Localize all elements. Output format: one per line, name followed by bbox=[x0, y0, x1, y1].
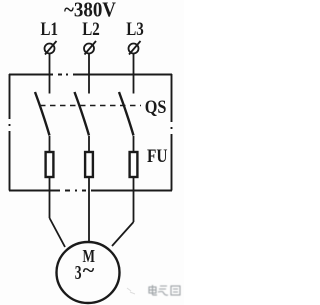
svg-text:3: 3 bbox=[75, 262, 82, 284]
svg-text:FU: FU bbox=[147, 147, 168, 167]
svg-text:L2: L2 bbox=[82, 19, 100, 40]
svg-text:L1: L1 bbox=[41, 19, 59, 40]
svg-text:QS: QS bbox=[145, 98, 167, 118]
svg-text:L3: L3 bbox=[126, 19, 144, 40]
svg-text:~: ~ bbox=[83, 260, 95, 282]
